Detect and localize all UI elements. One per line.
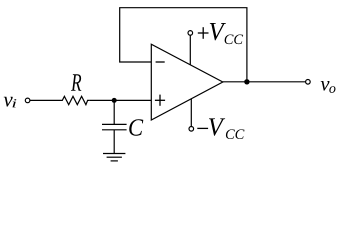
label vo [321,81,336,93]
+VCC terminal [188,31,193,36]
label +VCC [198,23,243,44]
op-amp U1 [151,44,223,120]
label C [129,119,143,136]
-VCC terminal [189,127,194,132]
wire -VCC to op-amp bottom edge [190,99,192,127]
ground [103,154,125,161]
wire op-amp output to terminal [223,81,306,83]
feedback wire from output to inverting input [120,8,247,82]
wire +VCC to op-amp top edge [189,35,191,65]
output node dot [244,79,249,84]
resistor R [61,96,90,104]
label vi [4,97,17,108]
wire input to resistor [30,99,61,101]
input terminal [25,98,30,103]
label -VCC [197,118,244,139]
wire resistor to op-amp + input [89,99,151,101]
node junction dot [112,98,117,103]
label R [71,74,81,91]
op-amp inverting input minus sign [156,61,165,63]
output terminal [306,80,311,85]
capacitor C [102,100,127,153]
op-amp non-inverting input plus sign [155,95,165,106]
